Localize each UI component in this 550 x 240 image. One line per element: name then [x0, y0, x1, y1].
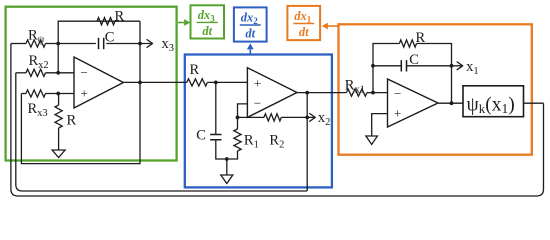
label R green feedback — [115, 9, 125, 25]
svg-text:R: R — [190, 62, 200, 78]
ground green — [52, 150, 65, 158]
resistor Rx3 — [26, 90, 46, 97]
resistor R orange feedback — [399, 40, 416, 47]
wire Rx2 to op-amp — [46, 72, 75, 74]
ground blue — [221, 175, 233, 184]
resistor R grounding green — [55, 105, 62, 128]
wire op-amp to psi box — [438, 102, 463, 104]
resistor R green feedback — [97, 18, 115, 25]
label Rx1 — [345, 78, 365, 96]
dx3/dt box — [191, 5, 225, 38]
label x3 — [162, 36, 175, 54]
wire minus vertical green — [57, 44, 59, 73]
wire R to ground green — [57, 94, 59, 151]
label C orange — [409, 52, 419, 68]
wire Rx2 input — [16, 72, 26, 74]
svg-text:+: + — [254, 75, 261, 90]
svg-text:+: + — [81, 86, 88, 101]
wire C left orange — [373, 65, 401, 67]
junction dots orange — [371, 64, 453, 105]
ground orange — [366, 136, 378, 145]
resistor Rx1 — [346, 89, 367, 96]
blue stage box — [185, 55, 332, 188]
resistor Rpsi — [26, 40, 46, 47]
dx1/dt box — [287, 6, 320, 40]
label R2 — [269, 133, 284, 151]
svg-text:+: + — [394, 106, 401, 121]
wire R1 branch — [227, 117, 238, 159]
arrow to dx1/dt box — [322, 23, 339, 30]
resistor Rx2 — [26, 69, 46, 76]
op-amp U3 green — [74, 57, 123, 108]
capacitor C green — [99, 38, 104, 49]
op-amp U2 blue — [247, 68, 297, 118]
label C green — [105, 30, 115, 46]
wire x2 feedback vertical — [306, 93, 308, 191]
capacitor C orange — [401, 60, 406, 71]
svg-text:−: − — [254, 95, 261, 110]
x3 output arrowhead — [147, 40, 153, 48]
wire green output — [123, 81, 186, 83]
dx2/dt box — [234, 7, 267, 41]
wire Rpsi feedback loop — [11, 44, 544, 197]
svg-text:ψk(x1): ψk(x1) — [467, 95, 515, 117]
wire Rx1 to op-amp — [367, 92, 388, 94]
green stage box — [6, 7, 177, 161]
svg-text:R: R — [67, 113, 77, 129]
label R1 — [244, 133, 259, 151]
label C blue — [196, 128, 206, 144]
wire green feedback top — [58, 21, 140, 43]
op-amp U1 orange — [388, 79, 439, 127]
wire minus node vertical orange — [373, 44, 399, 93]
wire Rpsi input — [11, 43, 26, 45]
label R blue input — [190, 62, 200, 78]
arrow to dx2/dt box — [247, 43, 254, 54]
svg-text:C: C — [196, 128, 206, 144]
wire Rpsi to C — [46, 43, 96, 45]
wire plus to ground orange — [372, 114, 388, 136]
resistor R2 — [264, 114, 281, 121]
svg-text:−: − — [81, 65, 88, 80]
wire Rx2 feedback loop — [16, 73, 307, 191]
wire blue output — [297, 92, 346, 94]
wire R to right vertical orange — [417, 44, 452, 104]
label Rpsi — [28, 28, 45, 46]
junction dots green — [56, 42, 142, 96]
label Rx3 — [28, 101, 48, 119]
svg-text:dt: dt — [299, 25, 309, 39]
wire ground stem blue — [226, 159, 228, 175]
label R grounding green — [67, 113, 77, 129]
x2 output arrowhead wire — [307, 114, 315, 122]
wire R2 to output vertical — [281, 116, 307, 118]
label Rx2 — [29, 53, 49, 71]
svg-text:R: R — [115, 9, 125, 25]
psi_k box — [463, 86, 524, 117]
wire C right orange — [407, 65, 452, 67]
wire feedback vertical green — [21, 21, 140, 163]
wire psi box output — [524, 102, 544, 104]
junction dots blue — [214, 81, 309, 161]
wire R2 left — [238, 116, 265, 118]
resistor R blue input — [187, 79, 208, 86]
wire Rx3 input — [21, 93, 26, 95]
orange stage box — [339, 24, 532, 154]
label x1 — [466, 59, 479, 77]
wire minus to node blue — [238, 104, 248, 118]
arrow to dx3/dt box — [178, 19, 190, 26]
wire C branch blue — [216, 82, 227, 159]
wire C to x3 arrow — [106, 43, 147, 45]
label x2 — [318, 110, 331, 128]
label psi_k(x1) — [467, 95, 515, 117]
label R orange — [416, 30, 426, 46]
capacitor C blue — [210, 135, 221, 140]
x1 output arrowhead wire — [452, 62, 463, 70]
wire R to op-amp blue — [207, 81, 247, 83]
resistor R1 — [234, 129, 241, 151]
svg-text:dt: dt — [245, 27, 255, 41]
wire Rx3 to op-amp — [46, 93, 75, 95]
svg-text:−: − — [394, 86, 401, 101]
svg-text:dt: dt — [202, 24, 212, 38]
